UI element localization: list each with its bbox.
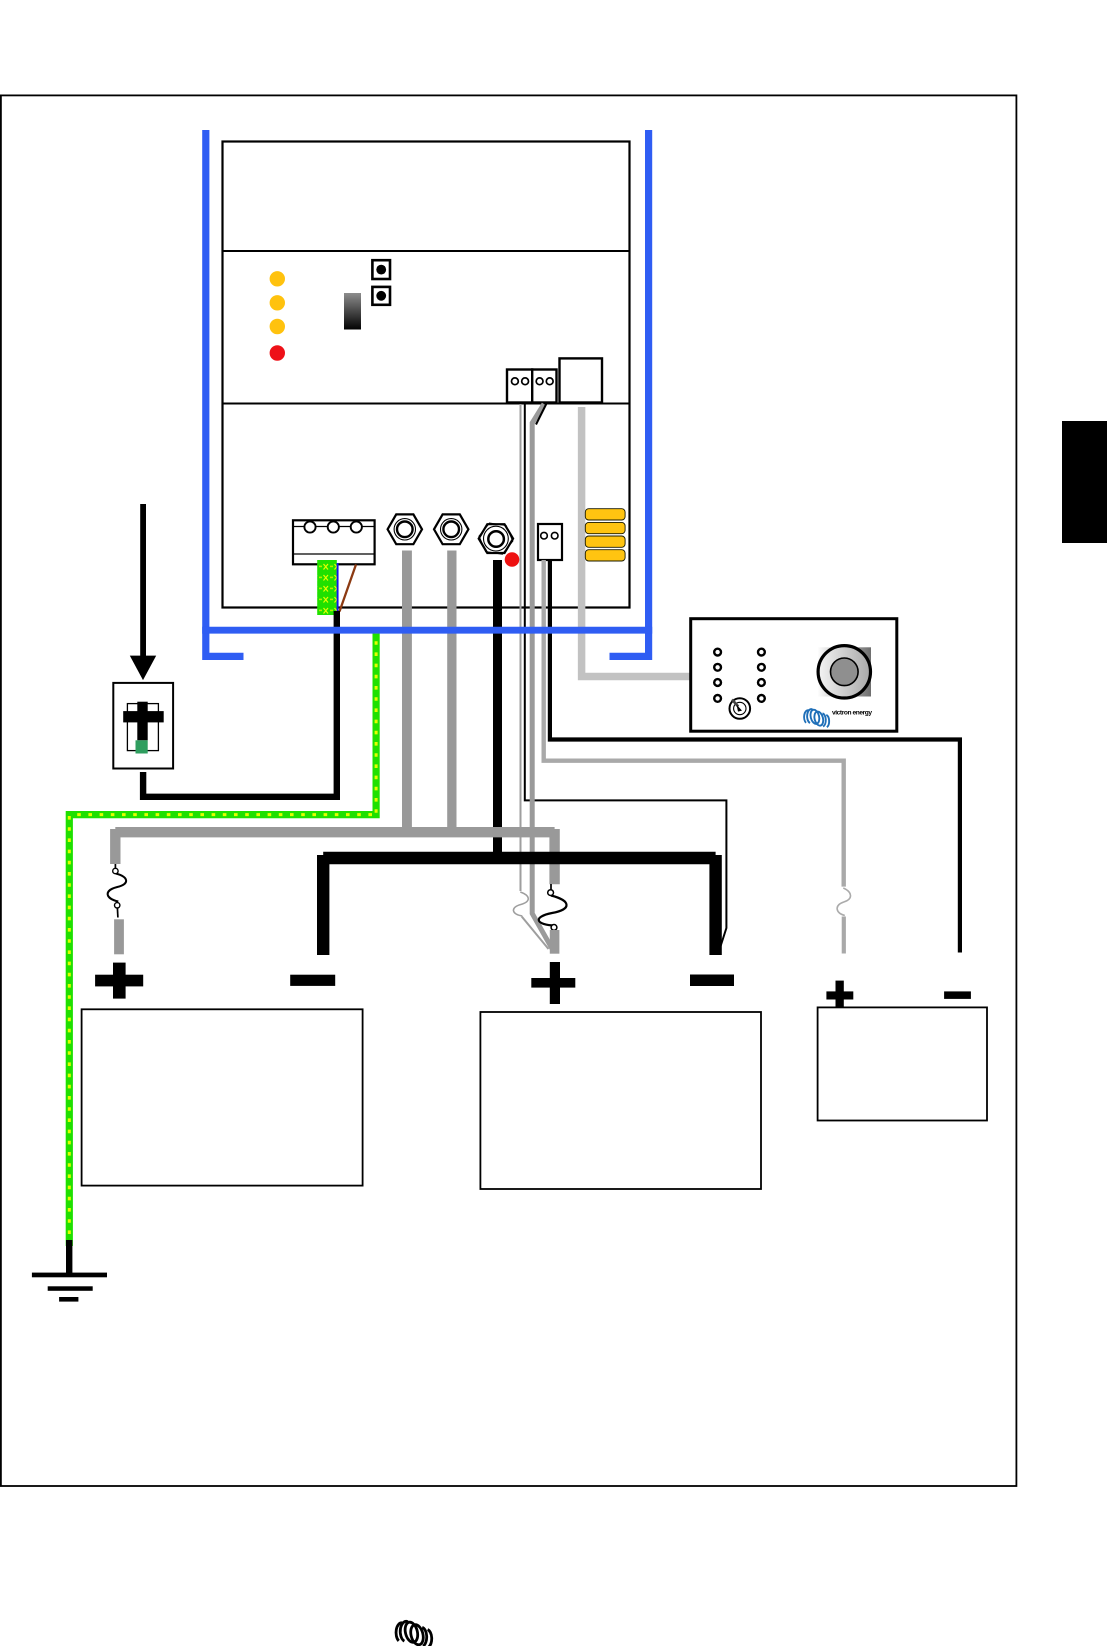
battery minus cable from gland 3 (black) xyxy=(493,560,502,858)
red indicator dot xyxy=(505,552,520,567)
battery 3 box (starter) xyxy=(818,1007,987,1120)
temperature sensor wire (gray) xyxy=(532,404,552,949)
battery 1 box xyxy=(82,1009,363,1185)
AC line wire (brown) xyxy=(340,565,357,612)
LED yellow 1 xyxy=(270,271,285,286)
starter battery sense wire (gray) xyxy=(544,560,844,887)
panel LED c1r3 xyxy=(714,679,721,686)
wall outlet arrow xyxy=(140,504,146,656)
starter battery sense wire lower stub xyxy=(842,917,846,954)
cable gland nut 3 xyxy=(479,523,513,554)
battery sense connector xyxy=(538,524,562,560)
battery 2 box xyxy=(480,1012,761,1189)
chapter tab (black) right margin xyxy=(1062,421,1107,543)
panel LED c2r1 xyxy=(758,649,765,656)
voltage sense wire - (thin black) xyxy=(525,404,727,950)
blue enclosure bottom rail (over wires) xyxy=(202,627,652,634)
panel LED c1r1 xyxy=(714,649,721,656)
pushbutton connector 2 xyxy=(372,287,390,305)
panel knob xyxy=(818,646,870,698)
LED yellow 2 xyxy=(270,295,285,310)
wall fuse box xyxy=(113,683,173,769)
starter battery sense fuse xyxy=(837,888,850,916)
cable gland nut 1 xyxy=(388,514,422,544)
battery 3 plus symbol xyxy=(826,981,853,1008)
charger top divider xyxy=(223,250,630,252)
panel knob backplate xyxy=(818,647,871,696)
battery plus bus (gray) xyxy=(115,829,554,884)
switch xyxy=(344,293,361,330)
earth terminal strip (green) xyxy=(317,560,337,615)
remote control panel xyxy=(691,619,897,732)
earth wire (green/yellow) xyxy=(69,629,376,1246)
sense terminal block A xyxy=(507,370,532,403)
fuse/vent strip yellow bar 2 xyxy=(585,522,625,533)
battery plus cable from gland 2 (gray) xyxy=(447,551,456,835)
panel LED c2r2 xyxy=(758,664,765,671)
starter battery minus wire (black) xyxy=(550,560,960,953)
panel key switch xyxy=(730,698,751,719)
charger bottom divider xyxy=(223,403,630,405)
remote panel cable (light gray) xyxy=(582,407,691,677)
battery 1 fuse xyxy=(108,864,126,918)
battery 2 plus symbol xyxy=(531,962,575,1004)
cable gland nut 2 xyxy=(434,514,468,544)
voltage sense fuse (thin) xyxy=(513,892,528,916)
battery 1 plus symbol xyxy=(95,963,143,999)
battery 2 minus symbol xyxy=(690,975,734,987)
svg-text:victron energy: victron energy xyxy=(832,709,872,716)
ground stub (black) xyxy=(66,1240,72,1274)
battery minus bus (black) xyxy=(323,855,715,955)
battery 1 minus symbol xyxy=(290,975,335,986)
panel LED c2r3 xyxy=(758,679,765,686)
AC mains cable (black) xyxy=(143,611,337,797)
victron spring logo (bottom, black) xyxy=(396,1621,432,1646)
LED red alarm xyxy=(270,345,285,360)
blue enclosure left wall xyxy=(202,130,243,656)
voltage sense diagonal to battery 2 plus xyxy=(522,917,549,950)
blue enclosure right wall xyxy=(610,130,653,656)
fuse/vent strip yellow bar 3 xyxy=(585,536,625,547)
AC neutral wire (blue) xyxy=(337,563,339,611)
remote connector socket box xyxy=(560,358,603,402)
sense terminal block B xyxy=(532,370,556,403)
temperature sensor lead (black) xyxy=(536,404,547,425)
voltage sense wire + (thin gray) xyxy=(520,404,522,891)
panel LED c1r4 xyxy=(714,695,721,702)
panel LED c2r4 xyxy=(758,695,765,702)
battery 1 plus lead (gray) xyxy=(114,919,124,954)
fuse/vent strip yellow bar 1 xyxy=(585,509,625,520)
ground symbol xyxy=(32,1273,107,1302)
page border frame xyxy=(1,95,1017,1486)
fuse/vent strip yellow bar 4 xyxy=(585,550,625,561)
battery plus cable from gland 1 (gray) xyxy=(402,551,412,835)
battery 2 fuse xyxy=(539,884,567,930)
battery 2 plus lead (gray) xyxy=(550,930,560,954)
LED yellow 3 xyxy=(270,319,285,334)
panel LED c1r2 xyxy=(714,664,721,671)
pushbutton connector 1 xyxy=(372,260,390,279)
victron spiral logo (blue) xyxy=(804,709,829,728)
battery 3 minus symbol xyxy=(944,991,971,999)
charger inner box xyxy=(223,142,630,608)
AC input terminal block xyxy=(293,520,375,564)
